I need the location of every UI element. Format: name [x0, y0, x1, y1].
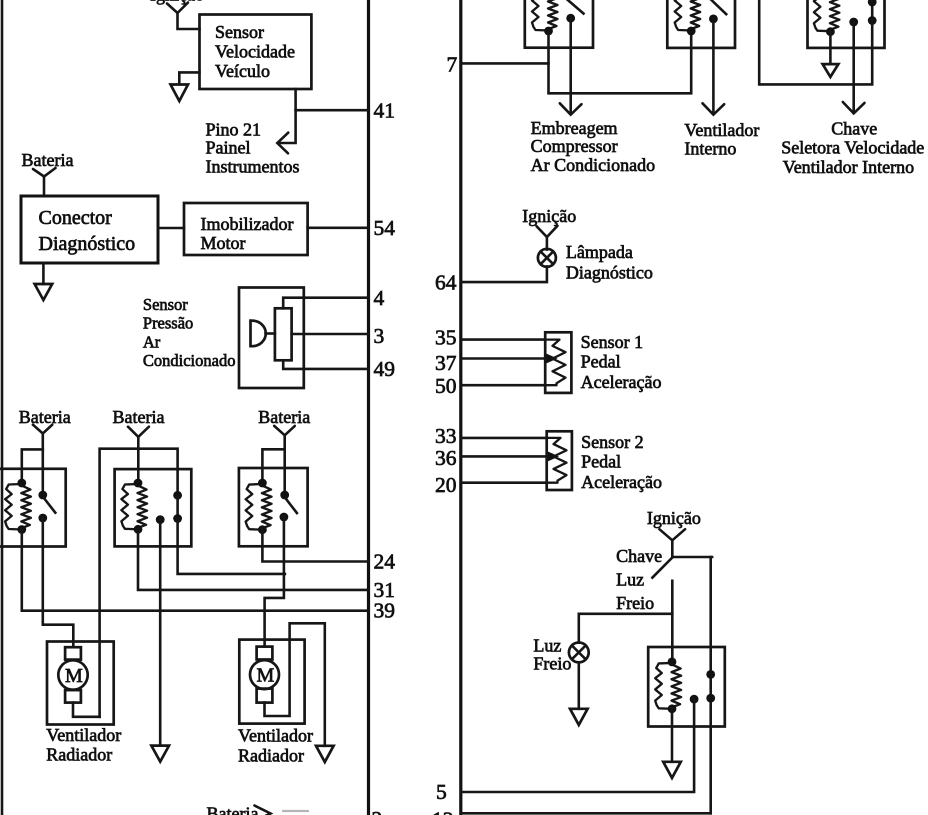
label: Embreagem Compressor Ar Condicionado [531, 118, 655, 175]
svg-text:31: 31 [374, 578, 396, 602]
relay L1 switch [38, 491, 55, 523]
svg-text:Condicionado: Condicionado [143, 351, 236, 370]
svg-text:Radiador: Radiador [238, 746, 304, 766]
box: Sensor 1 Pedal Aceleração (potentiometer) [545, 332, 571, 393]
relay C coil [814, 0, 840, 36]
svg-text:Freio: Freio [533, 654, 571, 674]
svg-text:Aceleração: Aceleração [581, 472, 662, 492]
label: Pino 21 Painel Instrumentos [206, 119, 300, 176]
power symbol: Ignição (Lâmpada Diagnóstico) [522, 206, 576, 250]
wire: pressure switch to pin 3 [292, 333, 369, 336]
wire: lamp to pin 64 [461, 266, 547, 282]
svg-text:Motor: Motor [201, 233, 246, 253]
wire: relay L3 coil return to pin 24 [262, 530, 368, 562]
ground: relay D coil return [663, 709, 681, 778]
svg-text:Ar Condicionado: Ar Condicionado [531, 155, 655, 175]
wire: relay D right contact to pin 12 [461, 812, 711, 815]
relay L3 box [239, 468, 308, 546]
wire: pin 35 to Sensor 1 [461, 338, 545, 341]
node: ECU left connector bus [367, 0, 370, 815]
label: Sensor Pressão Ar Condicionado [143, 295, 236, 370]
svg-text:4: 4 [374, 286, 385, 310]
svg-text:35: 35 [435, 326, 457, 350]
wire: relay D middle contact to pin 5 [461, 699, 694, 792]
wire: motor M2 return to ground [265, 623, 325, 746]
svg-text:Seletora Velocidade: Seletora Velocidade [781, 138, 924, 158]
wire: pressure switch to pin 4 [283, 298, 368, 309]
wire: figure left border [1, 0, 4, 815]
lamp: Lâmpada Diagnóstico [538, 249, 556, 267]
svg-text:54: 54 [374, 216, 396, 240]
box: Sensor Pressão Ar Condicionado (pressure switch) [239, 288, 304, 389]
node: ECU right connector bus [459, 0, 462, 815]
relay B coil [675, 0, 701, 35]
ground: motor M2 return [316, 746, 334, 762]
power symbol: Ignição (Chave Luz Freio) [647, 508, 701, 557]
relay C box (Chave Seletora, clipped at top) [808, 0, 885, 48]
power symbol: Bateria (relay L1) [19, 407, 71, 495]
svg-text:Painel: Painel [206, 137, 251, 157]
wire: pin 50 to Sensor 1 [461, 384, 545, 387]
relay L2 coil [121, 479, 147, 534]
relay D box (Luz Freio relay) [648, 647, 725, 727]
svg-text:37: 37 [435, 351, 457, 375]
wire: relay L2 coil return to pin 31 [138, 529, 369, 590]
svg-text:12: 12 [432, 807, 454, 815]
wire: switch to relay D right contact (down to pin 12) [709, 557, 712, 813]
wire: pin 20 to Sensor 2 [461, 481, 547, 484]
power symbol: Ignição (top left, clipped at top) [150, 0, 204, 29]
svg-text:Luz: Luz [533, 636, 561, 656]
relay L1 coil [5, 479, 31, 534]
svg-text:Ventilador: Ventilador [684, 120, 759, 140]
label: Ventilador Radiador 2 [238, 726, 313, 766]
wire: relay L2 battery feed rail [100, 449, 178, 717]
svg-text:3: 3 [374, 324, 385, 348]
svg-text:M: M [257, 665, 275, 687]
svg-text:7: 7 [447, 53, 458, 77]
wire: relay C right contact loop [759, 0, 872, 84]
svg-text:Ignição: Ignição [647, 508, 701, 528]
svg-text:5: 5 [436, 780, 447, 804]
wire+arrow: relay A output to Embreagem Compressor [560, 18, 582, 115]
svg-text:Bateria: Bateria [113, 407, 165, 427]
svg-text:Pino 21: Pino 21 [206, 119, 262, 139]
relay L3 switch [280, 491, 297, 522]
svg-text:Lâmpada: Lâmpada [566, 242, 633, 262]
relay D coil [655, 658, 681, 714]
box: Sensor Velocidade Veículo [200, 15, 312, 90]
svg-text:20: 20 [435, 473, 457, 497]
svg-text:Bateria: Bateria [22, 150, 74, 170]
label: Ventilador Radiador 1 [46, 725, 121, 765]
svg-text:33: 33 [435, 424, 457, 448]
ground: below Sensor Velocidade (open triangle) [171, 72, 200, 101]
wire+arrow: relay C middle contact to Chave Seletora [843, 22, 865, 113]
svg-text:Embreagem: Embreagem [531, 118, 618, 138]
relay L1 box (clipped at left edge) [0, 469, 66, 547]
svg-text:Bateria: Bateria [258, 407, 310, 427]
svg-text:Ignição: Ignição [150, 0, 204, 5]
wire: switch output down to relay D coil [671, 581, 674, 662]
motor M2 [250, 647, 279, 703]
label: Sensor 2 Pedal Aceleração [581, 432, 662, 492]
svg-text:36: 36 [435, 446, 457, 470]
svg-text:Ar: Ar [143, 333, 161, 352]
power symbol: Bateria (bottom, clipped) [207, 803, 310, 815]
relay L2 contacts [156, 491, 182, 524]
box: Imobilizador Motor [184, 203, 308, 255]
svg-text:Instrumentos: Instrumentos [206, 156, 300, 176]
svg-text:Velocidade: Velocidade [215, 42, 295, 62]
svg-text:Veículo: Veículo [215, 61, 270, 81]
svg-text:Chave: Chave [831, 119, 877, 139]
svg-text:Conector: Conector [39, 207, 113, 229]
box: Conector Diagnóstico [21, 196, 158, 263]
svg-text:Ventilador: Ventilador [46, 725, 121, 745]
switch: Chave Luz Freio [652, 557, 712, 578]
ground: below Conector Diagnóstico [35, 263, 53, 300]
label: Chave Seletora Velocidade Ventilador Interno [781, 119, 924, 178]
svg-text:Aceleração: Aceleração [581, 372, 662, 392]
ground: relay L2 middle contact [151, 746, 169, 762]
relay C contacts [849, 0, 876, 26]
svg-text:Pedal: Pedal [581, 352, 621, 372]
svg-text:Ventilador: Ventilador [238, 726, 313, 746]
wire: relay L2 lower contact to motor 2 feed [178, 519, 285, 574]
svg-text:Freio: Freio [616, 593, 654, 613]
relay L2 box [115, 469, 192, 546]
svg-text:41: 41 [374, 98, 396, 122]
svg-text:Interno: Interno [684, 139, 736, 159]
svg-text:Radiador: Radiador [46, 745, 112, 765]
box: Ventilador Radiador 2 [239, 640, 304, 724]
motor M1 [58, 647, 87, 702]
svg-text:49: 49 [374, 357, 396, 381]
wire: relay L3 switch output to motor 2 [265, 517, 284, 647]
svg-text:50: 50 [435, 374, 457, 398]
svg-text:M: M [65, 665, 83, 687]
wire+wiper arrow: pin 37 to Sensor 1 [461, 353, 558, 364]
wire+arrow: Pino 21 Painel Instrumentos (left-pointing open arrow) [277, 110, 295, 153]
ground: relay C coil [823, 32, 839, 77]
wire+arrow: relay B output to Ventilador Interno [703, 19, 725, 115]
power symbol: Bateria (Conector Diagnóstico) [22, 150, 74, 196]
svg-text:Sensor 2: Sensor 2 [581, 432, 644, 452]
wire: pressure switch to pin 49 [283, 360, 368, 369]
relay B switch [709, 0, 726, 23]
relay A coil [532, 0, 558, 35]
svg-text:Diagnóstico: Diagnóstico [566, 263, 653, 283]
power symbol: Bateria (relay L2) [113, 407, 165, 483]
svg-text:Pedal: Pedal [581, 452, 621, 472]
label: Chave Luz Freio [616, 546, 662, 613]
box: Ventilador Radiador 1 [47, 642, 114, 725]
wire: branch to Luz Freio lamp [579, 614, 673, 643]
label: Lâmpada Diagnóstico [566, 242, 653, 283]
svg-text:39: 39 [374, 599, 396, 623]
wire: motor M1 return to relay L2 rail [73, 703, 100, 717]
lamp: Luz Freio [569, 643, 589, 663]
label: Ventilador Interno [684, 120, 759, 159]
wire: pin 33 to Sensor 2 [461, 437, 547, 440]
svg-text:2: 2 [372, 807, 383, 815]
svg-text:Ventilador Interno: Ventilador Interno [783, 157, 914, 177]
svg-text:Imobilizador: Imobilizador [201, 214, 294, 234]
wire: Imobilizador Motor to pin 54 [308, 227, 369, 230]
wire: relay L2 middle contact to ground [159, 520, 162, 746]
relay A switch [566, 0, 583, 23]
svg-text:Bateria: Bateria [207, 803, 259, 815]
relay A box (Embreagem, clipped at top) [525, 0, 593, 48]
wire: Conector Diagnóstico to Imobilizador Motor [158, 227, 184, 230]
svg-text:64: 64 [435, 271, 457, 295]
relay B box (Ventilador Interno, clipped at top) [667, 0, 735, 48]
wire: pin 7 to relay A coil [461, 62, 549, 65]
svg-text:Sensor 1: Sensor 1 [581, 332, 644, 352]
wire+wiper arrow: pin 36 to Sensor 2 [461, 451, 559, 462]
label: Luz Freio [533, 636, 571, 674]
relay D contacts [690, 670, 715, 703]
svg-text:Bateria: Bateria [19, 407, 71, 427]
wire: relay A coil to pin7 node and relay B coil [549, 31, 692, 93]
svg-text:Ignição: Ignição [522, 206, 576, 226]
svg-text:Compressor: Compressor [531, 136, 618, 156]
wire: relay L1 switch output to motor 1 [43, 518, 74, 647]
svg-text:24: 24 [374, 550, 396, 574]
wire: Sensor Velocidade to pin 41 [296, 89, 369, 110]
svg-text:Diagnóstico: Diagnóstico [39, 233, 136, 255]
power symbol: Bateria (relay L3) [258, 407, 310, 495]
svg-text:Sensor: Sensor [143, 295, 188, 314]
ground: below Luz Freio lamp [570, 662, 588, 725]
wire: relay L1 coil return to pin 39 [22, 530, 369, 611]
relay L3 coil [246, 479, 272, 534]
label: Sensor 1 Pedal Aceleração [581, 332, 662, 392]
svg-text:Sensor: Sensor [215, 22, 264, 42]
svg-text:Luz: Luz [616, 570, 644, 590]
box: Sensor 2 Pedal Aceleração (potentiometer) [547, 431, 572, 490]
svg-text:Pressão: Pressão [143, 314, 193, 333]
svg-text:Chave: Chave [616, 546, 662, 566]
